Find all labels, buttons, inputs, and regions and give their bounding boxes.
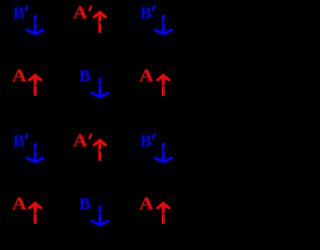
svg-text:A: A — [12, 66, 27, 86]
svg-text:A: A — [139, 66, 154, 86]
svg-text:A: A — [73, 3, 88, 23]
svg-text:B: B — [79, 67, 90, 86]
svg-text:B: B — [140, 132, 151, 151]
svg-text:A: A — [139, 194, 154, 214]
svg-text:B: B — [13, 4, 24, 23]
svg-text:B: B — [140, 4, 151, 23]
svg-text:A: A — [73, 131, 88, 151]
svg-text:A: A — [12, 194, 27, 214]
svg-text:B: B — [13, 132, 24, 151]
svg-text:B: B — [79, 195, 90, 214]
